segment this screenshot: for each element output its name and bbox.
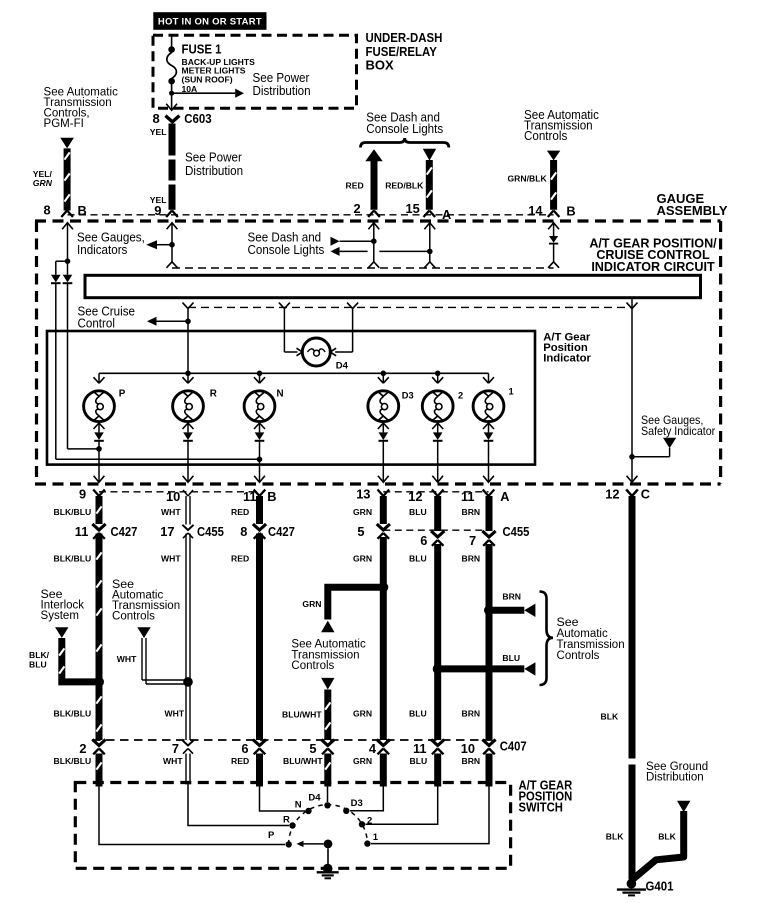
connector C407 pin 2 bbox=[92, 740, 105, 755]
exit arrow pin (N column) bbox=[254, 476, 265, 483]
svg-text:B: B bbox=[267, 489, 276, 504]
fork below gauge exit x=383.3 bbox=[378, 490, 390, 497]
pin 8 label C427 bbox=[240, 524, 247, 539]
wire switch 1 lead bbox=[371, 784, 489, 844]
svg-text:B: B bbox=[566, 204, 575, 219]
fork pin14 at inner connector line bbox=[548, 262, 559, 268]
pin 11 label C407 bbox=[413, 741, 427, 756]
svg-text:13: 13 bbox=[356, 487, 370, 502]
svg-text:Control: Control bbox=[78, 316, 115, 330]
label BRN row1 bbox=[462, 507, 481, 517]
connector C455 (GRN) bbox=[377, 524, 390, 539]
contact 2 bbox=[359, 821, 365, 827]
connector fork at gauge pin 2 bbox=[368, 211, 380, 218]
svg-text:Controls: Controls bbox=[112, 608, 155, 622]
bracket over pins 2 and 15 bbox=[361, 138, 449, 148]
label lamp 1 bbox=[509, 387, 514, 397]
arrow BLU to ATC bbox=[524, 662, 535, 675]
fuse description BACK-UP LIGHTS METER LIGHTS (SUN ROOF) 10A bbox=[182, 57, 256, 94]
label BLU row1 bbox=[409, 507, 427, 517]
svg-text:WHT: WHT bbox=[165, 709, 185, 719]
svg-text:GRN: GRN bbox=[302, 599, 321, 609]
wire BLU (pin12 to C455) bbox=[434, 496, 441, 531]
pin 8 label at C603 bbox=[153, 111, 160, 126]
svg-text:2: 2 bbox=[367, 815, 372, 826]
svg-text:RED/BLK: RED/BLK bbox=[385, 181, 424, 191]
svg-text:RED: RED bbox=[231, 507, 249, 517]
brace for ATC signals bbox=[540, 592, 554, 686]
wire BRN (C407 to switch) bbox=[486, 754, 493, 787]
fork above lamp 1 bbox=[483, 377, 494, 383]
branch node see power distribution bbox=[169, 91, 174, 96]
node bus 2 bbox=[435, 371, 441, 377]
label P (switch) bbox=[268, 830, 275, 841]
wire BLK/BLU interlock branch bbox=[59, 638, 99, 682]
fork below gauge exit x=488.5 bbox=[483, 490, 495, 497]
svg-text:Safety Indicator: Safety Indicator bbox=[641, 425, 716, 437]
wire RED (pin11B to C427) bbox=[256, 496, 263, 524]
svg-text:14: 14 bbox=[528, 203, 543, 218]
svg-text:P: P bbox=[268, 830, 275, 841]
entry arrow pin 8-B bbox=[62, 223, 73, 262]
svg-text:WHT: WHT bbox=[161, 507, 181, 517]
svg-text:BLK/BLU: BLK/BLU bbox=[54, 507, 92, 517]
svg-text:2: 2 bbox=[354, 201, 361, 216]
svg-text:BLK/: BLK/ bbox=[29, 650, 50, 660]
svg-text:INDICATOR CIRCUIT: INDICATOR CIRCUIT bbox=[591, 260, 715, 274]
label GRN row2 bbox=[353, 553, 372, 563]
pin 5 label C455 bbox=[357, 524, 364, 539]
node see gauges safety indicator bbox=[629, 454, 635, 460]
label BLK/BLU row1 bbox=[54, 507, 92, 517]
label See Automatic Transmission Controls (WHT branch) bbox=[112, 577, 180, 623]
label UNDER-DASH FUSE/RELAY BOX bbox=[366, 31, 443, 73]
arrow from ATC (GRN/BLK) bbox=[547, 151, 560, 161]
wire BLU branch bbox=[438, 665, 525, 672]
wire D4 lamp right lead bbox=[335, 309, 353, 352]
arrow from second BLK wire bbox=[677, 801, 690, 813]
node bus R bbox=[185, 371, 191, 377]
fork below gauge exit x=437.7 bbox=[432, 490, 444, 497]
diode D-left-b bbox=[63, 275, 73, 283]
svg-text:Console Lights: Console Lights bbox=[248, 242, 325, 256]
entry arrow pin 9 bbox=[167, 223, 178, 262]
wire BLU/WHT (C407 to switch) bbox=[325, 754, 330, 787]
svg-text:10A: 10A bbox=[182, 84, 198, 94]
arrow from interlock system bbox=[55, 627, 68, 638]
wire dash-console to pin2 bbox=[340, 240, 374, 242]
svg-text:C455: C455 bbox=[503, 524, 530, 539]
wire WHT (pin10 to C455) bbox=[186, 496, 190, 525]
node cruise control on R line bbox=[185, 319, 191, 325]
wire branch to second diode bbox=[56, 261, 68, 275]
svg-text:Distribution: Distribution bbox=[646, 769, 704, 783]
svg-text:GRN: GRN bbox=[353, 709, 372, 719]
exit arrow pin (R column) bbox=[183, 476, 194, 483]
node BLU branch bbox=[433, 664, 443, 674]
svg-text:11: 11 bbox=[413, 741, 427, 756]
lamp 1 bbox=[473, 391, 504, 422]
pin 2 label bbox=[354, 201, 361, 216]
wire diode to inner connector line bbox=[553, 244, 555, 262]
connector C455 (WHT) bbox=[182, 525, 193, 538]
pin 10 label (exit) bbox=[166, 489, 180, 504]
svg-text:SWITCH: SWITCH bbox=[519, 800, 563, 815]
node bus N bbox=[257, 371, 263, 377]
connector fork at gauge pin 15-A bbox=[424, 211, 436, 218]
svg-text:BLK/BLU: BLK/BLU bbox=[54, 709, 92, 719]
wire lamp N to gauge exit bbox=[259, 442, 261, 481]
pin 13 label (exit) bbox=[356, 487, 370, 502]
svg-text:BLK/BLU: BLK/BLU bbox=[54, 756, 92, 766]
wire BLU/WHT (to C407) bbox=[325, 690, 330, 741]
label WHT above C407 bbox=[165, 709, 185, 719]
svg-text:2: 2 bbox=[79, 741, 86, 756]
svg-text:BLU: BLU bbox=[409, 507, 427, 517]
svg-text:Distribution: Distribution bbox=[185, 164, 243, 178]
wire fuse to C603 bbox=[171, 81, 173, 109]
fork below lamp R bbox=[183, 423, 194, 432]
power label HOT IN ON OR START bbox=[153, 12, 266, 30]
svg-text:System: System bbox=[41, 608, 79, 622]
svg-text:RED: RED bbox=[346, 181, 364, 191]
label GRN/BLK bbox=[508, 174, 548, 184]
label See Ground Distribution bbox=[646, 758, 708, 783]
svg-text:Indicator: Indicator bbox=[543, 353, 591, 365]
fork pin15 at inner connector line bbox=[424, 262, 435, 268]
wire switch R lead bbox=[188, 784, 289, 826]
diode below lamp 1 bbox=[484, 432, 494, 440]
svg-text:FUSE 1: FUSE 1 bbox=[182, 42, 222, 57]
wire BRN (C455 to C407) bbox=[486, 544, 493, 740]
label See Gauges Safety Indicator bbox=[641, 414, 716, 437]
label FUSE 1 bbox=[182, 42, 222, 57]
svg-text:PGM-FI: PGM-FI bbox=[44, 116, 84, 130]
svg-text:9: 9 bbox=[154, 203, 161, 218]
exit connector dashed line left group bbox=[99, 491, 260, 493]
diode below lamp N bbox=[255, 432, 265, 440]
fork below lamp P bbox=[94, 423, 105, 432]
svg-text:C603: C603 bbox=[184, 111, 212, 126]
svg-text:Controls: Controls bbox=[291, 658, 334, 672]
connector C427 (BLK/BLU) bbox=[92, 524, 105, 539]
diode D-left-a bbox=[51, 275, 61, 283]
svg-text:D3: D3 bbox=[402, 391, 414, 401]
fork below lamp N bbox=[254, 423, 265, 432]
wire branch to power distribution bbox=[172, 92, 236, 94]
svg-text:Distribution: Distribution bbox=[253, 84, 311, 98]
wire D4 lamp left lead bbox=[284, 309, 297, 352]
wire BLU (C407 to switch) bbox=[434, 754, 441, 787]
pin 2 label C407 bbox=[79, 741, 86, 756]
exit arrow pin (P column) bbox=[94, 476, 105, 483]
svg-text:BLU: BLU bbox=[29, 660, 47, 670]
label See Automatic Transmission Controls (center) bbox=[291, 636, 365, 672]
fork below lamp 1 bbox=[483, 423, 494, 432]
svg-text:GRN: GRN bbox=[353, 507, 372, 517]
wire GRN (C455 to C407) bbox=[380, 537, 387, 740]
diode on pin 14 line bbox=[549, 236, 558, 244]
node WHT junction bbox=[183, 677, 193, 687]
pin 17 label C455 bbox=[160, 524, 174, 539]
svg-text:8: 8 bbox=[44, 202, 51, 217]
svg-text:4: 4 bbox=[369, 741, 377, 756]
fork above lamp D3 bbox=[378, 377, 389, 383]
lamp R bbox=[173, 391, 204, 422]
chevron right of lamp D4 bbox=[330, 348, 336, 356]
svg-text:BLU: BLU bbox=[409, 553, 427, 563]
pin 10 label C407 bbox=[461, 741, 475, 756]
wire BRN branch bbox=[489, 607, 524, 614]
fork D4-left at dashed line 2 bbox=[279, 303, 290, 309]
arrow from dash and console lights bbox=[331, 237, 340, 246]
entry arrow pin 15 bbox=[424, 223, 435, 262]
arrow to dash and console lights bbox=[331, 247, 340, 256]
svg-text:BLK: BLK bbox=[601, 712, 619, 722]
wire switch 2 lead bbox=[366, 784, 438, 825]
label BLU (branch) bbox=[502, 653, 520, 663]
wire RED (C427 to C407) bbox=[256, 534, 263, 741]
svg-text:8: 8 bbox=[240, 524, 247, 539]
wire RED (C407 to switch) bbox=[256, 754, 263, 787]
svg-text:D4: D4 bbox=[308, 792, 321, 803]
pin A label bbox=[442, 207, 451, 222]
connector fork at gauge pin 9 bbox=[166, 211, 178, 218]
pin 14 label bbox=[528, 203, 543, 218]
node interlock junction bbox=[94, 677, 104, 687]
fork above lamp P bbox=[94, 377, 105, 383]
label RED row2 bbox=[231, 553, 249, 563]
pin B label (gauge) bbox=[78, 203, 87, 218]
fork above lamp R bbox=[183, 377, 194, 383]
A/T gear position switch box (dashed) bbox=[75, 783, 510, 869]
wire lamp 1 to gauge exit bbox=[488, 442, 490, 481]
lamp P bbox=[84, 391, 115, 422]
svg-text:C427: C427 bbox=[268, 524, 295, 539]
svg-text:5: 5 bbox=[309, 741, 316, 756]
label BLU below C407 bbox=[410, 756, 428, 766]
label See Automatic Transmission Controls (top right) bbox=[524, 108, 599, 143]
exit arrow pin 12-C bbox=[627, 476, 638, 483]
label YEL/GRN bbox=[33, 169, 53, 188]
pin 12C label (exit) bbox=[605, 487, 619, 502]
label BRN (branch) bbox=[502, 591, 521, 601]
label BLK (right) bbox=[658, 831, 676, 841]
contact 1 bbox=[364, 840, 370, 846]
svg-text:N: N bbox=[295, 800, 302, 811]
wire GRN branch bbox=[328, 587, 384, 619]
label BLK lower bbox=[606, 831, 624, 841]
label BLU row2 bbox=[409, 553, 427, 563]
pin 6 label C455 bbox=[420, 533, 427, 548]
label D3 (switch) bbox=[351, 798, 363, 809]
wire switch D3 lead bbox=[350, 784, 383, 811]
svg-text:GRN: GRN bbox=[353, 756, 372, 766]
indicator circuit board bar bbox=[85, 275, 701, 297]
fork D4-right at dashed line 2 bbox=[347, 303, 358, 309]
label lamp R bbox=[210, 389, 217, 400]
svg-text:WHT: WHT bbox=[163, 756, 183, 766]
svg-text:C407: C407 bbox=[500, 739, 527, 754]
connector fork at gauge pin 8-B bbox=[61, 211, 73, 218]
svg-text:RED: RED bbox=[231, 553, 249, 563]
arrow from ATC (BLU/WHT) bbox=[321, 678, 334, 690]
svg-text:BLU/WHT: BLU/WHT bbox=[282, 710, 322, 720]
svg-text:Console Lights: Console Lights bbox=[366, 121, 443, 135]
label See Automatic Transmission Controls (right) bbox=[557, 615, 625, 662]
svg-text:6: 6 bbox=[420, 533, 427, 548]
diode below lamp P bbox=[94, 432, 104, 440]
svg-text:2: 2 bbox=[458, 391, 463, 401]
svg-text:Controls: Controls bbox=[524, 129, 567, 143]
label GRN above C407 bbox=[353, 709, 372, 719]
svg-text:BLU: BLU bbox=[409, 709, 427, 719]
label RED row1 bbox=[231, 507, 249, 517]
pin 6 label C407 bbox=[241, 741, 248, 756]
svg-text:BLK/BLU: BLK/BLU bbox=[54, 553, 92, 563]
svg-text:C: C bbox=[641, 487, 650, 502]
svg-text:See Power: See Power bbox=[253, 70, 310, 84]
pin A label (exit) bbox=[500, 489, 509, 504]
wire R-column upper (dashed line2 to lamp bus) bbox=[187, 309, 189, 374]
arrow to ATC (GRN branch) bbox=[321, 621, 334, 633]
pin 8 label (gauge) bbox=[44, 202, 51, 217]
svg-text:GRN/BLK: GRN/BLK bbox=[508, 174, 548, 184]
connector C455 (BRN) bbox=[482, 531, 495, 546]
wire to see cruise control bbox=[157, 320, 189, 322]
arrow from gauges safety indicator bbox=[663, 438, 676, 448]
fork below lamp 2 bbox=[432, 423, 443, 432]
lamp 2 bbox=[422, 391, 453, 422]
connector C407 pin 11 bbox=[431, 740, 444, 755]
svg-text:BRN: BRN bbox=[462, 709, 481, 719]
svg-text:BLU: BLU bbox=[410, 756, 428, 766]
pin 11 label C427 bbox=[75, 524, 89, 539]
fork below gauge exit x=632 bbox=[626, 490, 638, 497]
wire switch D4 lead bbox=[327, 784, 329, 803]
top pins connector dashed line bbox=[68, 214, 554, 216]
svg-text:G401: G401 bbox=[646, 879, 674, 894]
arrow see gauges indicators bbox=[146, 240, 157, 249]
fork below gauge exit x=99 bbox=[93, 490, 105, 497]
C455 dashed line right group bbox=[383, 529, 488, 531]
diode below lamp R bbox=[183, 432, 193, 440]
label D4 (switch) bbox=[308, 792, 321, 803]
svg-text:BLK: BLK bbox=[606, 831, 624, 841]
svg-text:P: P bbox=[119, 389, 126, 400]
connector C407 pin 5 bbox=[321, 740, 334, 755]
svg-text:10: 10 bbox=[461, 741, 475, 756]
node at fuse top bbox=[168, 46, 175, 53]
pin 15 label bbox=[406, 201, 420, 216]
label RED bbox=[346, 181, 364, 191]
svg-text:WHT: WHT bbox=[161, 553, 181, 563]
svg-text:A: A bbox=[500, 489, 509, 504]
exit connector dashed line right group bbox=[383, 491, 488, 493]
wire to see gauges indicators bbox=[157, 244, 172, 246]
pin 11A label (exit) bbox=[461, 489, 475, 504]
label YEL upper bbox=[150, 127, 167, 137]
svg-text:15: 15 bbox=[406, 201, 420, 216]
node BRN branch bbox=[484, 605, 494, 615]
wire diode-b to P lamp node bbox=[68, 283, 100, 449]
contact R bbox=[289, 822, 295, 828]
svg-text:1: 1 bbox=[373, 832, 379, 843]
contact N bbox=[305, 808, 311, 814]
label C603 bbox=[184, 111, 212, 126]
svg-text:R: R bbox=[210, 389, 217, 400]
pin 7 label C455 bbox=[469, 533, 476, 548]
wire switch N lead bbox=[260, 784, 306, 812]
label BLK upper bbox=[601, 712, 619, 722]
svg-text:7: 7 bbox=[172, 741, 179, 756]
arrow see cruise control bbox=[147, 317, 157, 326]
wire bus stem lamp 1 bbox=[488, 373, 490, 383]
switch ground bbox=[317, 864, 339, 879]
node see gauges indicators bbox=[169, 242, 175, 248]
fork below lamp D3 bbox=[378, 423, 389, 432]
wire BLK (to G401 diagonal) bbox=[633, 811, 684, 880]
wire lamp P to gauge exit bbox=[98, 442, 100, 481]
label BLK/BLU row2 bbox=[54, 553, 92, 563]
wire switch P lead bbox=[99, 784, 285, 845]
label BLU/WHT below C407 bbox=[283, 756, 323, 766]
svg-text:See Power: See Power bbox=[185, 150, 242, 164]
svg-text:D3: D3 bbox=[351, 798, 363, 809]
A/T gear position indicator box bbox=[47, 331, 535, 465]
svg-text:12: 12 bbox=[605, 487, 619, 502]
label lamp P bbox=[119, 389, 126, 400]
svg-text:D4: D4 bbox=[336, 361, 349, 372]
lamp D4 bbox=[302, 338, 330, 366]
svg-text:BRN: BRN bbox=[462, 507, 481, 517]
wire GRN (pin13 to C455) bbox=[380, 496, 387, 524]
svg-text:C455: C455 bbox=[197, 524, 224, 539]
wire BLK/BLU (pin9 to C427) bbox=[96, 496, 101, 524]
svg-text:17: 17 bbox=[160, 524, 174, 539]
label 2 (switch) bbox=[367, 815, 372, 826]
svg-text:Controls: Controls bbox=[557, 648, 600, 662]
label YEL lower bbox=[150, 195, 167, 205]
wire bus stem lamp D3 bbox=[382, 373, 384, 383]
fork below gauge exit pin10 (WHT) bbox=[183, 490, 193, 496]
wire BRN (pin11A to C455) bbox=[486, 496, 493, 531]
pin 5 label C407 bbox=[309, 741, 316, 756]
label C455 (right) bbox=[503, 524, 530, 539]
svg-text:7: 7 bbox=[469, 533, 476, 548]
wire bus stem lamp P bbox=[98, 373, 100, 383]
wire BLK/BLU (C427 to C407) bbox=[96, 534, 101, 741]
entry arrow pin 14 bbox=[548, 223, 559, 236]
label N (switch) bbox=[295, 800, 302, 811]
pin 12 label (exit) bbox=[408, 489, 422, 504]
under-dash fuse/relay box (dashed) bbox=[153, 35, 357, 108]
label GRN (branch) bbox=[302, 599, 321, 609]
label BRN above C407 bbox=[462, 709, 481, 719]
node N-column junction bbox=[257, 457, 263, 463]
svg-text:BRN: BRN bbox=[462, 553, 481, 563]
svg-text:Indicators: Indicators bbox=[77, 242, 127, 256]
label WHT row1 bbox=[161, 507, 181, 517]
svg-text:RED: RED bbox=[231, 756, 249, 766]
connector C427 (RED) bbox=[253, 524, 266, 539]
wire RED with up arrow bbox=[365, 149, 382, 210]
node dash-console top bbox=[371, 238, 377, 244]
wire branch to safety indicator bbox=[632, 448, 670, 457]
fork BLK-column at dashed line 2 bbox=[627, 303, 638, 309]
label See Cruise Control bbox=[78, 304, 136, 330]
svg-text:YEL: YEL bbox=[150, 127, 167, 137]
